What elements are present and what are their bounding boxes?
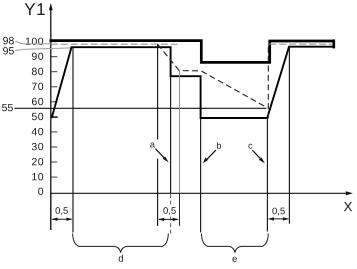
thick trace right end cap [332,39,335,48]
brace label e [232,257,236,262]
value label 98 [3,37,14,44]
value label 95 [3,47,14,54]
gray dashed limit line 98 left [51,43,181,45]
Y axis tick label 30 [32,143,43,150]
Y axis tick label 70 [32,83,43,90]
interval label 0,5 #1 [55,207,67,215]
Y1 axis [49,3,53,230]
gray dashed limit line 98 right [269,43,333,45]
interval label 0,5 #3 [272,208,284,216]
interval arrow #1 [52,218,71,220]
Y axis tick label 10 [32,173,43,180]
brace e [201,234,268,253]
callout letter a [150,143,155,148]
Y axis tick label 80 [32,68,43,75]
reference vertical x=170.6 [170,76,172,193]
interval label 0,5 #2 [163,207,175,215]
reference vertical x=289.1 [288,47,290,224]
Y axis tick label 20 [32,158,43,165]
Y axis tick label 60 [32,98,43,105]
55 reference line [15,107,267,109]
dashed projection below axis x=170.6 upper [170,194,172,205]
dashed projection below axis x=170.6 lower [170,217,172,235]
gray reference vertical x=179.5 upper [179,71,181,193]
Y axis tick label 0 [38,188,43,195]
output trace Y1 [51,47,334,118]
value label 55 [2,104,13,111]
reference vertical x=159 upper [157,44,159,139]
reference vertical x=73 [72,47,74,232]
interval arrow #2 [159,218,178,220]
callout letter c [248,144,252,149]
y axis extension below x axis [50,193,52,230]
callout letter b [217,142,221,149]
Y axis tick marks [51,42,57,178]
reference vertical x=200.6 [200,118,202,233]
callout c arrow [252,150,262,161]
leader line 98 [16,41,51,44]
start value stub [51,116,58,118]
X axis [50,191,353,195]
Y axis tick label 40 [32,128,44,135]
reference vertical x=179.5 below axis [179,193,181,226]
X axis label [344,202,352,211]
brace d [73,234,169,253]
Y axis tick label 90 [32,53,43,60]
brace label d [119,255,123,262]
leader line 95 [16,48,73,51]
interval arrow #3 [269,218,289,220]
reference vertical x=266.6 [266,119,268,232]
dark dashed vertical at x=268.3 [267,44,269,118]
Y axis tick label 50 [32,113,43,120]
callout b arrow [206,150,216,161]
Y axis tick label 100 [26,38,43,45]
dark dashed tracking line fall and diagonal [158,44,268,108]
thick input trace [50,41,334,63]
Y1 axis label [25,3,45,15]
callout a arrow [155,149,166,160]
reference vertical x=159 lower [157,159,159,226]
